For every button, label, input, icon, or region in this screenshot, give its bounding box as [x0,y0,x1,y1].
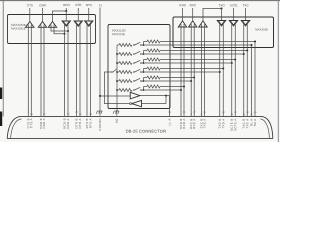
svg-text:SCTE A: SCTE A [233,118,237,130]
svg-text:TXC A: TXC A [202,118,206,128]
svg-text:SCTE: SCTE [230,3,238,7]
svg-text:RXD: RXD [179,3,186,7]
svg-text:MAX3031E: MAX3031E [11,27,26,31]
svg-text:LL A: LL A [167,118,171,125]
svg-text:DSR: DSR [39,3,46,7]
svg-text:LL: LL [99,3,103,7]
svg-text:RTS A: RTS A [88,118,92,128]
svg-text:CTS A: CTS A [29,118,33,128]
svg-text:CTS: CTS [27,3,33,7]
svg-text:TXC: TXC [243,3,250,7]
svg-text:RXC A: RXC A [192,118,196,128]
svg-text:DCD: DCD [63,3,70,7]
svg-text:TM A: TM A [253,119,257,127]
svg-text:DB-25 CONNECTOR: DB-25 CONNECTOR [126,129,167,134]
svg-text:TXD: TXD [219,3,226,7]
svg-text:MAX3095: MAX3095 [255,28,268,32]
svg-text:CHGND: CHGND [98,118,102,130]
svg-text:DSR A: DSR A [42,118,46,128]
svg-text:DTR A: DTR A [78,118,82,128]
svg-text:DCD A: DCD A [66,118,70,129]
svg-text:RXC: RXC [190,3,197,7]
svg-text:SG: SG [115,118,119,123]
svg-text:TXD A: TXD A [221,118,225,128]
svg-text:RTS: RTS [86,3,92,7]
svg-text:DTR: DTR [75,3,82,7]
svg-text:RXD A: RXD A [182,118,186,128]
svg-text:MAX213E: MAX213E [112,32,125,36]
